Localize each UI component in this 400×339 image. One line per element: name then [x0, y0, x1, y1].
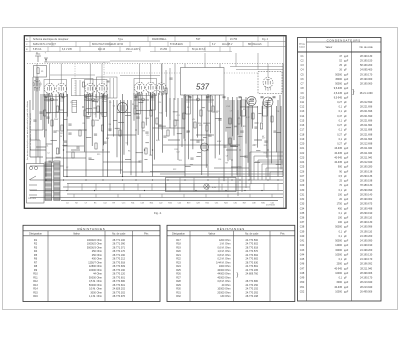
wire — [254, 139, 262, 141]
svg-text:R11: R11 — [131, 203, 134, 205]
wire — [252, 106, 254, 129]
wire — [86, 136, 91, 138]
wire — [149, 93, 151, 155]
svg-text:28.212.690: 28.212.690 — [360, 101, 373, 104]
junction — [63, 149, 64, 150]
svg-text:28.770.601: 28.770.601 — [112, 276, 125, 279]
wire — [32, 77, 34, 110]
resistor R25 — [145, 148, 147, 154]
coil former — [208, 96, 213, 111]
bus wire — [30, 197, 283, 199]
svg-text:R14: R14 — [198, 123, 201, 125]
svg-text:R20: R20 — [176, 250, 181, 253]
svg-text:Désig-: Désig- — [299, 44, 306, 46]
bus wire — [30, 190, 283, 192]
column divider — [350, 42, 352, 301]
svg-text:R24: R24 — [176, 265, 181, 268]
title block divider — [75, 42, 77, 47]
svg-text:R18: R18 — [199, 125, 202, 127]
svg-text:C18: C18 — [140, 203, 143, 205]
svg-text:C21: C21 — [300, 147, 305, 150]
wire — [258, 113, 261, 115]
tube V2 coil (envelope) — [85, 83, 95, 93]
wire — [282, 64, 284, 177]
wire — [265, 168, 267, 180]
pilot lamp — [204, 184, 209, 189]
wire to dial box — [184, 64, 186, 68]
svg-text:10000/2 Ohm: 10000/2 Ohm — [87, 243, 102, 246]
antenna terminal A — [35, 54, 41, 62]
resistor R21 — [260, 123, 262, 129]
svg-text:C13: C13 — [187, 131, 190, 133]
wire link — [193, 184, 195, 191]
svg-text:28.211.940: 28.211.940 — [360, 156, 373, 159]
IF transformer T3 can — [134, 79, 157, 96]
svg-text:C14: C14 — [158, 102, 161, 104]
svg-text:78.180.130: 78.180.130 — [360, 184, 373, 187]
wire — [183, 95, 185, 139]
svg-text:µµF: µµF — [344, 180, 349, 183]
svg-text:4,5-445: 4,5-445 — [334, 92, 343, 95]
svg-text:µµF: µµF — [344, 253, 349, 256]
capacitor C10 — [186, 131, 189, 132]
svg-text:R32: R32 — [176, 295, 181, 298]
junction on bus — [152, 179, 153, 180]
svg-text:28.212.940: 28.212.940 — [360, 161, 373, 164]
capacitor C3 — [64, 141, 67, 142]
tube V3b top lead — [150, 64, 152, 83]
title block divider — [147, 36, 149, 42]
wire — [59, 94, 61, 154]
svg-text:3000 Ohm: 3000 Ohm — [90, 291, 102, 294]
svg-text:C9: C9 — [146, 135, 148, 137]
wire — [229, 100, 231, 160]
title block divider — [209, 42, 211, 47]
wire — [127, 100, 129, 145]
wire — [134, 99, 149, 101]
resistor R16 — [200, 110, 202, 116]
resistor R29 — [167, 130, 169, 136]
wire — [276, 164, 281, 166]
title block divider — [89, 42, 91, 47]
capacitor C28 — [39, 112, 42, 113]
svg-text:µF: µF — [344, 235, 347, 238]
capacitor C49 — [169, 78, 172, 79]
wire — [168, 139, 180, 141]
title block divider — [229, 47, 231, 52]
wire — [250, 106, 252, 184]
second shield line (dashed) — [104, 72, 258, 74]
tube V2 coil top lead — [89, 64, 91, 84]
svg-text:C17: C17 — [300, 129, 305, 132]
wire — [133, 93, 135, 121]
wire link — [151, 184, 153, 191]
wire — [84, 94, 86, 152]
wire link — [95, 194, 97, 198]
svg-text:C28: C28 — [300, 180, 305, 183]
svg-text:C24: C24 — [300, 161, 305, 164]
tube V2b pins — [100, 93, 104, 98]
svg-text:28.221.696: 28.221.696 — [360, 110, 373, 113]
coil former — [46, 95, 51, 113]
svg-text:6A8G 6K7G U 52 6Q7: 6A8G 6K7G U 52 6Q7 — [33, 43, 57, 46]
junction — [239, 149, 240, 150]
wire — [173, 111, 178, 113]
svg-text:C35: C35 — [300, 212, 305, 215]
svg-text:C4: C4 — [95, 102, 97, 104]
wire — [64, 169, 123, 171]
capacitor C24 — [108, 129, 111, 130]
svg-text:C15: C15 — [122, 203, 125, 205]
wire — [99, 94, 101, 119]
resistor (stage) — [83, 82, 85, 87]
svg-text:R1: R1 — [41, 71, 43, 73]
IF transformer T1 can — [44, 80, 67, 97]
title block divider — [99, 47, 101, 52]
wire — [44, 99, 58, 101]
wire link — [117, 194, 119, 198]
tube V1 coil pins — [47, 93, 51, 98]
svg-text:C2: C2 — [66, 167, 68, 169]
wire — [237, 100, 239, 135]
svg-text:R13: R13 — [243, 109, 246, 111]
wire to dial box — [204, 64, 206, 68]
svg-text:µF: µF — [344, 230, 347, 233]
wire — [215, 118, 222, 120]
junction — [267, 149, 268, 150]
wire — [113, 120, 117, 122]
svg-text:0,27: 0,27 — [337, 143, 342, 146]
wire — [241, 97, 243, 127]
capacitor C23 — [68, 124, 71, 125]
resistor R15 — [194, 122, 196, 128]
svg-text:28.770.618: 28.770.618 — [245, 246, 258, 249]
wire — [63, 94, 65, 177]
svg-text:50000/3 Ohm: 50000/3 Ohm — [87, 246, 102, 249]
title block rule 1 — [24, 41, 286, 43]
svg-text:150 c/s 220 V: 150 c/s 220 V — [126, 49, 141, 51]
svg-text:1,4 M. Ohm: 1,4 M. Ohm — [89, 295, 102, 298]
svg-text:µF: µF — [344, 110, 347, 113]
wire — [90, 151, 110, 153]
tube V3b (envelope) — [146, 82, 156, 92]
svg-text:40-945: 40-945 — [334, 161, 342, 164]
title block divider — [47, 47, 49, 52]
resistor R20 — [252, 113, 254, 119]
title block divider — [59, 47, 61, 52]
svg-text:C37: C37 — [300, 221, 305, 224]
wire above tubes — [44, 61, 110, 63]
svg-text:R30: R30 — [261, 203, 264, 205]
svg-text:28.770.198: 28.770.198 — [245, 295, 258, 298]
tube V3 coil top lead — [139, 64, 141, 83]
resistor R12 — [150, 110, 152, 116]
svg-text:Désignation: Désignation — [172, 233, 186, 236]
svg-text:28.190.130: 28.190.130 — [360, 253, 373, 256]
wire — [161, 64, 163, 131]
svg-text:50000 Ohm: 50000 Ohm — [89, 276, 102, 279]
svg-text:40-945: 40-945 — [334, 156, 342, 159]
capacitor (coupling) — [239, 97, 242, 98]
svg-text:24.770.602: 24.770.602 — [245, 243, 258, 246]
wire — [232, 97, 234, 136]
junction on bus — [244, 190, 245, 191]
svg-text:24.190.090: 24.190.090 — [360, 240, 373, 243]
junction — [82, 106, 83, 107]
capacitor C5 — [94, 134, 97, 135]
wire — [201, 107, 204, 109]
wire — [227, 97, 229, 161]
svg-text:58.160.200: 58.160.200 — [360, 64, 373, 67]
svg-text:10000 Ohm: 10000 Ohm — [217, 288, 230, 291]
wire above tubes — [110, 60, 160, 62]
wire — [219, 95, 221, 155]
svg-text:28.770.302: 28.770.302 — [112, 291, 125, 294]
wire — [46, 157, 86, 159]
capacitor C7 — [136, 117, 139, 118]
svg-text:24.190.996: 24.190.996 — [360, 226, 373, 229]
wire — [254, 161, 260, 163]
svg-text:C2: C2 — [47, 153, 49, 155]
capacitor C26 — [223, 146, 226, 147]
svg-text:µF: µF — [344, 133, 347, 136]
svg-text:R11: R11 — [179, 160, 182, 162]
svg-text:24.770.150: 24.770.150 — [245, 284, 258, 287]
wire — [71, 149, 80, 151]
wire above tubes — [236, 69, 283, 71]
svg-text:28.221.690: 28.221.690 — [360, 115, 373, 118]
tube V6 indicator pins — [266, 86, 270, 91]
wire — [50, 74, 95, 76]
wire — [248, 100, 250, 177]
svg-text:0,27: 0,27 — [337, 124, 342, 127]
wire — [102, 94, 104, 177]
svg-text:28.771.190: 28.771.190 — [112, 254, 125, 257]
wire — [270, 171, 283, 173]
wire — [271, 106, 273, 163]
wire — [39, 140, 41, 164]
svg-text:C3: C3 — [94, 114, 96, 116]
wire — [190, 139, 204, 141]
svg-text:C6: C6 — [126, 142, 128, 144]
selector contact — [34, 166, 37, 169]
svg-text:RÉSISTANCES: RÉSISTANCES — [217, 226, 245, 231]
svg-text:R17: R17 — [264, 152, 267, 154]
tube V0 left (envelope) — [33, 80, 41, 88]
wire — [275, 106, 277, 152]
wire — [277, 131, 281, 133]
svg-text:C28: C28 — [196, 203, 199, 205]
svg-text:9,5-945: 9,5-945 — [334, 87, 343, 90]
coil former — [241, 100, 246, 116]
svg-text:28.290.675: 28.290.675 — [360, 203, 373, 206]
svg-text:avec un voltmètre de 1000 Ohm: avec un voltmètre de 1000 Ohm par volt — [29, 113, 32, 150]
svg-text:10000: 10000 — [335, 272, 342, 275]
wire — [139, 102, 144, 104]
svg-text:250 Ohm: 250 Ohm — [92, 250, 102, 253]
svg-text:C51: C51 — [300, 286, 305, 289]
tube U2 output — [247, 96, 256, 105]
svg-text:23.756.B: 23.756.B — [266, 205, 275, 207]
junction on bus — [277, 179, 278, 180]
wire — [89, 158, 94, 160]
svg-text:µF: µF — [344, 189, 347, 192]
junction — [184, 139, 185, 140]
svg-text:40-945: 40-945 — [334, 267, 342, 270]
wire in stage box — [109, 78, 111, 98]
wire link — [249, 184, 251, 191]
shield partition vertical — [74, 64, 76, 96]
svg-text:28.770.680: 28.770.680 — [112, 280, 125, 283]
capacitor (coupling) — [151, 97, 154, 98]
svg-text:C12: C12 — [300, 106, 305, 109]
wire — [231, 100, 233, 177]
title block rule 2 — [24, 46, 286, 48]
svg-text:RADIOBELL: RADIOBELL — [152, 37, 167, 41]
wire — [116, 100, 118, 157]
junction — [135, 129, 136, 130]
svg-text:C22: C22 — [159, 203, 162, 205]
wire — [186, 99, 214, 101]
wire — [103, 161, 140, 163]
svg-text:µF: µF — [344, 119, 347, 122]
svg-text:C10: C10 — [300, 96, 305, 99]
svg-text:R12: R12 — [174, 149, 177, 151]
tube U1 converter — [118, 103, 128, 113]
capacitor C19 — [88, 158, 91, 159]
junction on bus — [239, 179, 240, 180]
svg-text:28.190.280: 28.190.280 — [360, 166, 373, 169]
svg-text:130 Ohm: 130 Ohm — [220, 295, 230, 298]
svg-text:50000: 50000 — [335, 73, 342, 76]
resistor R30 — [119, 130, 121, 136]
tube V1b electrodes — [59, 86, 63, 91]
svg-text:6000: 6000 — [337, 281, 343, 284]
coil former — [186, 96, 191, 114]
svg-text:µF: µF — [344, 277, 347, 280]
tube V1b top lead — [60, 64, 62, 84]
wire — [205, 95, 207, 168]
svg-text:Schéma électrique du récept: Schéma électrique du récepteur — [33, 38, 69, 41]
svg-text:R16: R16 — [238, 167, 241, 169]
capacitor (coupling) — [223, 97, 226, 98]
junction — [207, 149, 208, 150]
wire — [120, 75, 160, 77]
IF transformer T2 can — [85, 80, 108, 97]
svg-text:C35: C35 — [233, 203, 236, 205]
svg-text:R28: R28 — [176, 280, 181, 283]
tube V2 coil pins — [88, 93, 92, 98]
svg-text:29.190.150: 29.190.150 — [360, 59, 373, 62]
wire — [46, 143, 53, 145]
svg-text:1750: 1750 — [337, 203, 343, 206]
svg-text:Fig. 4: Fig. 4 — [262, 38, 269, 41]
wire — [159, 125, 166, 127]
svg-text:R23: R23 — [176, 261, 181, 264]
wire link — [165, 184, 167, 191]
wire — [122, 94, 124, 177]
svg-text:R16: R16 — [168, 203, 171, 205]
title block divider — [257, 36, 259, 42]
junction on bus — [94, 190, 95, 191]
svg-text:6 V: 6 V — [212, 44, 216, 46]
wire — [266, 167, 283, 169]
tuning indicator shield (dashed) — [258, 72, 282, 94]
svg-text:No. de code: No. de code — [112, 233, 126, 236]
resistor R22 — [271, 116, 273, 122]
svg-text:900: 900 — [338, 166, 343, 169]
wire — [56, 156, 61, 158]
svg-text:28.770.680: 28.770.680 — [245, 280, 258, 283]
bus wire — [30, 179, 283, 181]
wire — [120, 100, 122, 174]
wire — [113, 100, 115, 137]
wire — [269, 172, 271, 180]
svg-text:R22: R22 — [176, 258, 181, 261]
svg-text:R11: R11 — [33, 276, 38, 279]
wire — [144, 158, 147, 160]
chassis cell divider — [179, 178, 181, 192]
drop wire — [204, 53, 206, 64]
svg-text:29.190.170: 29.190.170 — [360, 73, 373, 76]
svg-text:C23: C23 — [300, 156, 305, 159]
svg-text:R25: R25 — [176, 269, 181, 272]
svg-text:µµF: µµF — [344, 73, 349, 76]
wire — [267, 100, 269, 177]
tube V3c top lead — [161, 64, 163, 83]
title block divider — [167, 42, 169, 47]
tube V3b pins — [149, 92, 153, 97]
svg-text:C41: C41 — [300, 240, 305, 243]
chassis cell divider — [227, 178, 229, 192]
svg-text:0,27: 0,27 — [337, 101, 342, 104]
wire link — [73, 194, 75, 198]
wire in stage box — [75, 80, 77, 96]
svg-text:C7: C7 — [230, 110, 232, 112]
wire link — [271, 194, 273, 198]
wire — [169, 98, 171, 128]
capacitor C2 — [53, 131, 56, 132]
svg-text:C34: C34 — [300, 207, 305, 210]
svg-text:24.770.500: 24.770.500 — [245, 239, 258, 242]
svg-text:2000: 2000 — [337, 263, 343, 266]
svg-text:28.21.1.090: 28.21.1.090 — [360, 92, 374, 95]
title block divider — [225, 36, 227, 42]
junction on bus — [144, 190, 145, 191]
svg-text:µF: µF — [344, 124, 347, 127]
svg-text:410 43: 410 43 — [98, 49, 106, 51]
wire — [203, 136, 207, 138]
svg-text:29.190.110: 29.190.110 — [360, 230, 373, 233]
svg-text:µµF: µµF — [344, 170, 349, 173]
svg-text:28.190.060: 28.190.060 — [360, 78, 373, 81]
svg-text:Valeur: Valeur — [325, 46, 332, 49]
wire — [166, 93, 168, 117]
svg-text:C28: C28 — [149, 155, 152, 157]
svg-text:R30: R30 — [176, 288, 181, 291]
capacitor C22 — [244, 156, 247, 157]
svg-text:µµF: µµF — [344, 267, 349, 270]
wire — [42, 94, 44, 130]
tube V3c pins — [159, 91, 163, 96]
wire — [67, 94, 69, 117]
svg-text:C50: C50 — [300, 281, 305, 284]
svg-text:R1: R1 — [57, 131, 59, 133]
svg-text:28.212.698: 28.212.698 — [360, 143, 373, 146]
svg-text:0,44 M. Ohm: 0,44 M. Ohm — [216, 261, 230, 264]
svg-text:µµF: µµF — [344, 166, 349, 169]
svg-text:0,5 M. Ohm: 0,5 M. Ohm — [89, 280, 102, 283]
